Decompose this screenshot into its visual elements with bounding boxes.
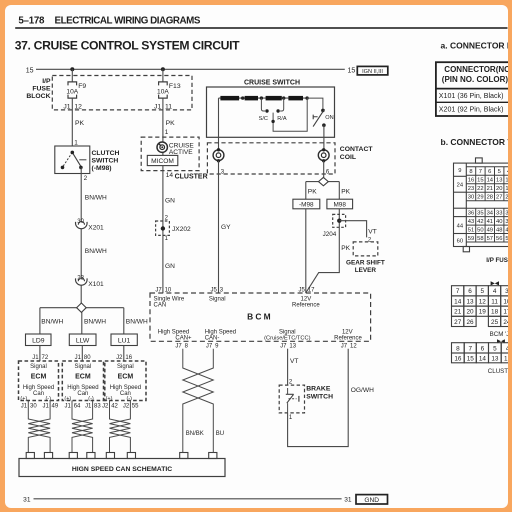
svg-text:18: 18 [491, 309, 499, 316]
svg-text:50: 50 [477, 227, 483, 233]
svg-text:High Speed: High Speed [67, 385, 98, 391]
svg-text:BN/WH: BN/WH [84, 319, 106, 326]
svg-text:5: 5 [481, 288, 485, 295]
svg-text:16: 16 [468, 178, 474, 184]
svg-text:S/C: S/C [259, 116, 268, 122]
svg-text:LEVER: LEVER [355, 267, 377, 274]
svg-text:7: 7 [456, 288, 460, 295]
svg-text:55: 55 [505, 236, 507, 242]
splice JX202 [156, 216, 191, 242]
svg-text:BLOCK: BLOCK [26, 93, 50, 100]
svg-text:BU: BU [216, 431, 224, 437]
svg-text:24: 24 [457, 183, 464, 189]
svg-text:-M98: -M98 [299, 202, 314, 209]
svg-text:CLUTCH: CLUTCH [92, 150, 120, 157]
svg-text:3: 3 [220, 288, 224, 294]
svg-text:J7: J7 [280, 344, 287, 350]
twisted pair ECM2 [72, 401, 93, 453]
svg-text:a. CONNECTOR LIST: a. CONNECTOR LIST [441, 41, 508, 51]
svg-text:37. CRUISE CONTROL SYSTEM CIRC: 37. CRUISE CONTROL SYSTEM CIRCUIT [15, 38, 240, 52]
pin labels J2 42 / J2 55 [102, 404, 139, 410]
junction diamond [77, 303, 87, 312]
svg-text:83: 83 [94, 404, 101, 410]
svg-text:31: 31 [23, 497, 31, 504]
svg-text:43: 43 [468, 219, 474, 225]
svg-text:42: 42 [477, 219, 483, 225]
svg-text:12: 12 [74, 103, 82, 110]
fuse F13 10A [159, 82, 168, 98]
svg-text:X101 (36 Pin, Black): X101 (36 Pin, Black) [439, 92, 504, 100]
svg-text:ECM: ECM [31, 374, 47, 381]
connector grid I/P fuse block [454, 158, 512, 252]
svg-text:80: 80 [84, 355, 91, 361]
svg-text:49: 49 [52, 404, 59, 410]
contact coil right [318, 148, 329, 162]
svg-text:J1: J1 [64, 404, 71, 410]
svg-text:5: 5 [498, 169, 501, 175]
wire cluster pin 14 down to BCM J7 10 [162, 166, 164, 293]
svg-text:(PIN NO. COLOR): (PIN NO. COLOR) [442, 75, 508, 84]
svg-text:CONNECTOR(NO.): CONNECTOR(NO.) [444, 65, 507, 74]
svg-text:J1: J1 [63, 103, 70, 110]
pin labels J1 64 / J1 83 [64, 404, 101, 410]
svg-text:ECM: ECM [75, 374, 91, 381]
svg-text:J7: J7 [155, 288, 162, 294]
connector grid BCM J7 [452, 286, 512, 327]
svg-text:Can: Can [77, 391, 88, 397]
svg-text:15: 15 [348, 67, 356, 74]
svg-text:CLUSTER (X101): CLUSTER (X101) [488, 368, 508, 375]
svg-text:CAN-: CAN- [205, 336, 220, 342]
resistor bars [220, 96, 303, 101]
svg-text:J5: J5 [299, 288, 306, 294]
svg-text:13: 13 [466, 298, 474, 305]
wire from line 15 to fuse F13 [162, 69, 164, 82]
svg-text:High Speed: High Speed [23, 385, 54, 391]
svg-text:48: 48 [496, 227, 502, 233]
wire code box M98 [327, 199, 353, 209]
svg-text:BCM: BCM [247, 312, 273, 322]
grid3 pin numbers [454, 345, 511, 362]
contact coil dashed box [207, 143, 335, 174]
terminal lugs on CAN schematic box [26, 453, 217, 459]
pin J5 17 12V Reference [292, 288, 320, 309]
ECM connector 2 dashed box [62, 361, 103, 402]
pin J7 8 High Speed CAN+ [158, 329, 192, 349]
svg-text:OG/WH: OG/WH [351, 387, 374, 394]
svg-text:20: 20 [466, 309, 474, 316]
svg-text:GEAR SHIFT: GEAR SHIFT [346, 260, 385, 267]
svg-text:Single Wire: Single Wire [154, 296, 185, 302]
svg-text:LLW: LLW [76, 338, 90, 345]
svg-text:16: 16 [125, 355, 132, 361]
wire clutch switch pin 2 down to branch diamond [80, 167, 82, 303]
svg-text:29: 29 [477, 195, 483, 201]
header rule [15, 27, 507, 29]
connector X201 pin 30 [75, 219, 104, 232]
svg-text:21: 21 [454, 309, 462, 316]
brake switch dashed box [279, 385, 304, 413]
svg-text:14: 14 [479, 355, 487, 362]
svg-text:J1: J1 [21, 404, 28, 410]
svg-text:14: 14 [166, 172, 174, 179]
svg-text:J2: J2 [116, 355, 123, 361]
svg-text:30: 30 [30, 404, 37, 410]
svg-text:27: 27 [454, 319, 462, 326]
svg-text:J7: J7 [175, 344, 182, 350]
I/P fuse block dashed box [52, 76, 192, 110]
wire coil pin6 to diamond [323, 161, 325, 178]
svg-text:(-M98): (-M98) [92, 165, 112, 172]
svg-text:19: 19 [479, 309, 487, 316]
twisted pair ECM3 [110, 401, 131, 453]
svg-text:J2: J2 [123, 404, 130, 410]
svg-text:10A: 10A [66, 89, 78, 96]
junction diamond pin6 [319, 177, 329, 185]
svg-text:16: 16 [454, 355, 462, 362]
svg-text:35: 35 [477, 211, 483, 217]
svg-text:30: 30 [468, 195, 474, 201]
svg-text:58: 58 [477, 236, 483, 242]
connector list table [436, 62, 512, 116]
svg-text:High Speed: High Speed [158, 329, 189, 335]
svg-text:BN/WH: BN/WH [41, 319, 63, 326]
wire -M98 down to BCM J5 17 [305, 209, 307, 293]
svg-text:PK: PK [308, 189, 317, 196]
twisted pair ECM1 [28, 401, 50, 453]
pin label J1 12 [63, 103, 82, 110]
switch R/A [276, 98, 286, 122]
svg-text:J1: J1 [43, 404, 50, 410]
svg-text:27: 27 [496, 195, 502, 201]
svg-text:40: 40 [496, 219, 502, 225]
svg-text:4: 4 [493, 288, 497, 295]
svg-text:I/P: I/P [42, 78, 51, 85]
switch ON [307, 98, 334, 149]
wire: top supply line 15 [36, 68, 345, 70]
pin label J1 72 [32, 355, 49, 361]
svg-text:(-): (-) [127, 396, 133, 402]
wire code box LU1 [111, 334, 137, 346]
svg-text:8: 8 [469, 169, 472, 175]
branch to gear shift lever [339, 221, 366, 238]
svg-text:J1: J1 [32, 355, 39, 361]
svg-text:72: 72 [42, 355, 49, 361]
svg-text:10: 10 [503, 298, 507, 305]
wire fuse F9 to clutch switch [71, 98, 73, 146]
svg-text:PK: PK [166, 120, 176, 127]
svg-text:b. CONNECTOR VIEW: b. CONNECTOR VIEW [441, 137, 508, 147]
svg-text:HIGN SPEED CAN SCHEMATIC: HIGN SPEED CAN SCHEMATIC [72, 466, 172, 473]
svg-text:17: 17 [308, 288, 315, 294]
svg-text:23: 23 [77, 275, 84, 281]
svg-text:1: 1 [165, 236, 169, 242]
svg-text:1: 1 [74, 139, 78, 146]
svg-text:BN/WH: BN/WH [85, 195, 107, 202]
svg-text:8: 8 [185, 344, 189, 350]
svg-text:8: 8 [456, 345, 460, 352]
svg-text:CLUSTER: CLUSTER [175, 174, 208, 181]
svg-text:15: 15 [477, 178, 483, 184]
svg-text:F13: F13 [169, 83, 181, 90]
pin J7 12 12V Reference [334, 329, 362, 349]
svg-text:14: 14 [454, 298, 462, 305]
svg-text:12V: 12V [301, 296, 312, 302]
svg-text:F9: F9 [78, 83, 86, 90]
svg-text:MICOM: MICOM [151, 158, 174, 165]
svg-text:PK: PK [341, 245, 350, 252]
switch S/C [259, 98, 269, 122]
pin J5 3 Signal [209, 288, 226, 303]
BCM dashed box [150, 293, 371, 341]
net box GND [356, 495, 388, 505]
pin label J1 80 [75, 355, 92, 361]
svg-text:J5: J5 [211, 288, 218, 294]
svg-text:M98: M98 [333, 202, 346, 209]
svg-text:22: 22 [477, 186, 483, 192]
svg-text:10: 10 [165, 288, 172, 294]
svg-text:(+): (+) [64, 396, 71, 402]
svg-text:High Speed: High Speed [110, 385, 141, 391]
svg-text:19: 19 [505, 186, 507, 192]
grid2 pin numbers [454, 288, 511, 326]
svg-text:59: 59 [468, 236, 474, 242]
connector lock symbol BCM [491, 281, 499, 285]
svg-text:3: 3 [505, 288, 507, 295]
svg-text:6: 6 [481, 345, 485, 352]
svg-text:13: 13 [496, 178, 502, 184]
svg-text:9: 9 [458, 168, 461, 174]
svg-text:J1: J1 [154, 103, 161, 110]
svg-text:9: 9 [215, 344, 219, 350]
svg-text:6: 6 [468, 288, 472, 295]
svg-text:J7: J7 [206, 344, 213, 350]
svg-text:24: 24 [503, 319, 507, 326]
wire GY coil pin3 to BCM J5 3 [218, 161, 220, 293]
svg-text:13: 13 [491, 355, 499, 362]
svg-text:Signal: Signal [117, 364, 134, 370]
wire brake switch to OG/WH to BCM J7 12 [288, 349, 349, 447]
svg-text:57: 57 [487, 236, 493, 242]
wire into cluster lamp [162, 137, 164, 155]
svg-text:49: 49 [487, 227, 493, 233]
svg-text:VT: VT [290, 358, 298, 365]
svg-text:ELECTRICAL WIRING DIAGRAMS: ELECTRICAL WIRING DIAGRAMS [55, 16, 201, 27]
junction dot at F13 [161, 67, 165, 71]
svg-text:14: 14 [487, 178, 494, 184]
connector X101 pin 23 [75, 275, 104, 288]
wire M98 through J204 to J5 17 [306, 209, 339, 293]
svg-text:12: 12 [350, 344, 357, 350]
svg-text:7: 7 [479, 169, 482, 175]
svg-text:64: 64 [74, 404, 81, 410]
wire from line 15 to fuse F9 [71, 69, 73, 82]
svg-text:R/A: R/A [277, 116, 287, 122]
wires into ECM connectors [40, 346, 124, 362]
split wires to M98 boxes [306, 182, 340, 200]
svg-text:SWITCH: SWITCH [92, 158, 119, 165]
svg-text:4: 4 [506, 345, 508, 352]
clutch switch contacts [63, 152, 87, 167]
svg-text:47: 47 [505, 227, 507, 233]
svg-text:J1: J1 [75, 355, 82, 361]
svg-text:VT: VT [368, 229, 376, 236]
svg-text:15: 15 [26, 67, 34, 74]
svg-text:PK: PK [341, 189, 350, 196]
svg-text:12: 12 [504, 355, 507, 362]
HIGN SPEED CAN SCHEMATIC box [19, 459, 225, 477]
pin labels J1 30 / J1 49 [21, 404, 59, 410]
svg-text:41: 41 [487, 219, 493, 225]
svg-text:CAN+: CAN+ [175, 336, 192, 342]
svg-text:BCM 'J7' (X201): BCM 'J7' (X201) [490, 331, 508, 338]
connector lock symbol cluster [497, 339, 505, 343]
svg-text:ON: ON [325, 115, 333, 121]
connector grid cluster [452, 343, 512, 363]
svg-text:42: 42 [111, 404, 118, 410]
svg-text:34: 34 [487, 211, 494, 217]
svg-text:5–178: 5–178 [18, 16, 45, 27]
svg-text:BRAKE: BRAKE [306, 386, 331, 393]
svg-text:CONTACT: CONTACT [340, 146, 374, 153]
svg-text:GND: GND [364, 497, 379, 504]
ECM connector 3 dashed box [105, 361, 146, 402]
svg-text:36: 36 [468, 211, 474, 217]
svg-text:6: 6 [488, 169, 491, 175]
svg-text:BN/BK: BN/BK [186, 431, 204, 437]
pin label J1 11 [154, 103, 172, 110]
svg-text:Reference: Reference [292, 303, 320, 309]
svg-text:J1: J1 [85, 404, 92, 410]
svg-text:30: 30 [77, 219, 84, 225]
contact coil left [213, 148, 224, 162]
svg-text:I/P FUSE BLOCK (X101): I/P FUSE BLOCK (X101) [486, 257, 507, 264]
wire VT BCM J7 13 to brake switch [287, 349, 289, 385]
svg-text:Signal: Signal [75, 364, 92, 370]
svg-text:7: 7 [469, 345, 473, 352]
svg-text:10A: 10A [157, 89, 169, 96]
cruise switch box [207, 87, 335, 137]
grid1 cells lower block [466, 208, 512, 242]
svg-text:56: 56 [496, 236, 502, 242]
net box IGN II,III [357, 66, 388, 75]
ECM connector 1 dashed box [19, 361, 59, 402]
svg-text:GY: GY [221, 224, 231, 231]
svg-text:55: 55 [132, 404, 139, 410]
svg-text:Signal: Signal [279, 329, 296, 335]
svg-text:26: 26 [505, 195, 507, 201]
svg-text:X201 (92 Pin, Black): X201 (92 Pin, Black) [439, 106, 504, 114]
wire code box -M98 [293, 199, 320, 209]
wire fuse F13 to cluster [162, 98, 164, 137]
svg-text:33: 33 [496, 211, 502, 217]
svg-text:GN: GN [165, 198, 175, 205]
wire code box LD9 [26, 334, 52, 346]
svg-text:20: 20 [496, 186, 502, 192]
svg-text:1: 1 [165, 129, 169, 136]
clutch switch box [55, 146, 90, 174]
svg-text:39: 39 [505, 219, 507, 225]
svg-text:11: 11 [165, 103, 172, 110]
pin label J2 16 [116, 355, 133, 361]
svg-text:BN/WH: BN/WH [126, 319, 148, 326]
svg-text:5: 5 [493, 345, 497, 352]
fuse F9 10A [68, 82, 77, 98]
svg-text:PK: PK [75, 120, 85, 127]
svg-text:CRUISE SWITCH: CRUISE SWITCH [244, 79, 300, 86]
junction dot at F9 [70, 67, 74, 71]
svg-text:GN: GN [165, 263, 175, 270]
svg-text:COIL: COIL [340, 154, 356, 161]
svg-text:26: 26 [466, 319, 474, 326]
svg-text:12: 12 [479, 298, 487, 305]
svg-text:11: 11 [491, 298, 498, 305]
svg-text:LD9: LD9 [32, 338, 45, 345]
svg-text:1: 1 [289, 415, 293, 421]
svg-text:17: 17 [503, 309, 507, 316]
svg-text:Signal: Signal [30, 364, 47, 370]
svg-text:Reference: Reference [334, 336, 362, 342]
svg-text:X201: X201 [88, 225, 104, 232]
svg-text:(+): (+) [20, 396, 27, 402]
svg-text:ECM: ECM [118, 374, 134, 381]
svg-text:J204: J204 [323, 231, 337, 238]
grid1 cells upper block [466, 167, 512, 201]
svg-text:4: 4 [507, 169, 508, 175]
wire: branch line to LD9 LLW LU1 [40, 308, 124, 334]
splice J204 [323, 214, 346, 238]
common pole wire [273, 98, 307, 131]
svg-text:J7: J7 [341, 344, 348, 350]
cruise switch resistor bus [219, 98, 308, 149]
svg-text:LU1: LU1 [118, 338, 131, 345]
svg-text:44: 44 [457, 223, 464, 229]
svg-text:J2: J2 [102, 404, 109, 410]
svg-text:(Cruise/ETC/TCC): (Cruise/ETC/TCC) [264, 336, 311, 342]
svg-text:X101: X101 [88, 281, 104, 288]
label I/P FUSE BLOCK [26, 78, 51, 100]
svg-text:25: 25 [491, 319, 499, 326]
twisted pair BCM high speed CAN [183, 349, 214, 453]
MICOM box [147, 155, 178, 165]
svg-text:CAN: CAN [154, 303, 167, 309]
svg-text:32: 32 [505, 211, 507, 217]
instrument cluster dashed box [141, 137, 199, 171]
wire code box LLW [69, 334, 96, 346]
svg-text:15: 15 [467, 355, 475, 362]
svg-text:IGN II,III: IGN II,III [362, 69, 383, 75]
svg-text:23: 23 [468, 186, 474, 192]
svg-text:51: 51 [468, 227, 474, 233]
gear shift lever dashed box [346, 242, 385, 274]
pin J7 13 Signal (Cruise/ETC/TCC) [264, 329, 311, 349]
ground line 31 [34, 498, 342, 500]
pin J7 10 Single Wire CAN [154, 288, 185, 309]
svg-text:Can: Can [33, 391, 44, 397]
svg-text:60: 60 [457, 238, 463, 244]
svg-text:JX202: JX202 [172, 226, 191, 233]
indicator lamp CRUISE ACTIVE [157, 142, 167, 152]
svg-text:BN/WH: BN/WH [85, 248, 107, 255]
grid1 pin numbers [457, 168, 512, 244]
svg-text:Signal: Signal [209, 296, 226, 302]
bus junction dots [241, 96, 309, 99]
svg-text:High Speed: High Speed [205, 329, 236, 335]
svg-text:21: 21 [487, 186, 493, 192]
pin J7 9 High Speed CAN- [205, 329, 236, 349]
svg-text:12: 12 [505, 178, 507, 184]
svg-text:13: 13 [289, 344, 296, 350]
